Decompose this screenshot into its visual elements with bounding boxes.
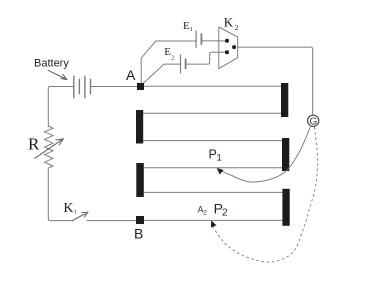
svg-text:1: 1 bbox=[217, 152, 222, 163]
svg-text:2: 2 bbox=[235, 23, 239, 32]
svg-text:R: R bbox=[28, 135, 40, 154]
svg-text:Battery: Battery bbox=[34, 58, 69, 70]
svg-text:K: K bbox=[224, 15, 234, 30]
svg-text:1: 1 bbox=[190, 27, 193, 33]
svg-text:2: 2 bbox=[222, 207, 228, 219]
svg-text:B: B bbox=[134, 225, 143, 241]
svg-text:2: 2 bbox=[203, 209, 207, 216]
svg-text:G: G bbox=[310, 116, 318, 127]
svg-text:A: A bbox=[126, 67, 136, 83]
svg-text:2: 2 bbox=[171, 55, 174, 61]
svg-text:1: 1 bbox=[74, 210, 77, 216]
svg-text:K: K bbox=[63, 201, 73, 216]
svg-text:E: E bbox=[164, 46, 171, 58]
